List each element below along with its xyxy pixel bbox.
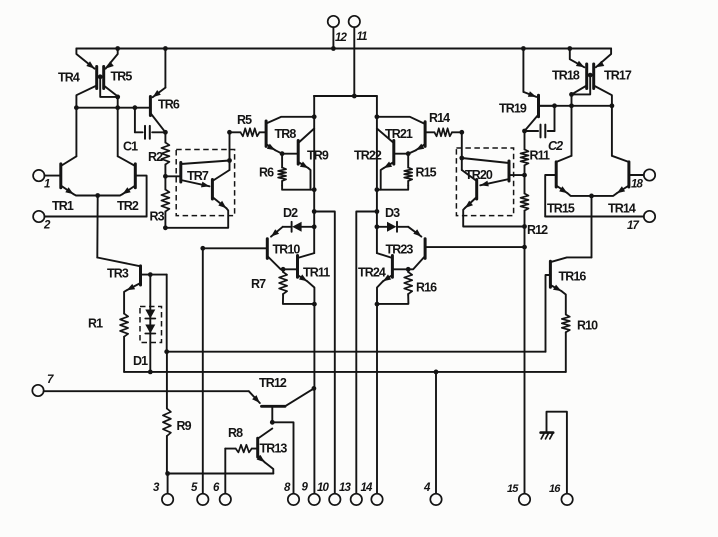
transistor TR11 <box>283 253 330 304</box>
node junction <box>148 272 153 277</box>
svg-text:R11: R11 <box>530 149 550 163</box>
svg-text:TR7: TR7 <box>187 169 209 183</box>
svg-text:C1: C1 <box>123 140 138 154</box>
pin 13 <box>339 482 362 505</box>
resistor R2 <box>148 132 169 176</box>
diode D2 <box>283 206 315 232</box>
wire <box>229 132 231 170</box>
pin 10 wire <box>314 212 335 494</box>
node junction <box>375 302 380 307</box>
svg-text:R7: R7 <box>251 277 266 291</box>
svg-text:R10: R10 <box>577 319 598 333</box>
transistor TR14 <box>592 156 644 216</box>
wire <box>97 74 104 79</box>
node junction <box>227 130 232 135</box>
node junction <box>521 46 526 51</box>
svg-text:TR20: TR20 <box>465 168 493 182</box>
node junction <box>406 267 411 272</box>
svg-text:TR11: TR11 <box>303 266 330 280</box>
transistor TR22 <box>354 129 408 190</box>
capacitor C1 <box>123 105 165 153</box>
pin 15 <box>507 483 530 505</box>
resistor R16 <box>377 269 437 304</box>
wire <box>124 371 566 373</box>
diode D1 <box>133 275 155 372</box>
wire <box>76 86 96 108</box>
resistor R10 <box>562 315 598 372</box>
node junction <box>165 471 170 476</box>
node junction <box>522 129 527 134</box>
wire <box>166 275 168 352</box>
transistor TR9 <box>282 129 329 190</box>
svg-text:15: 15 <box>507 483 519 495</box>
node junction <box>163 174 168 179</box>
wire <box>104 86 120 100</box>
wire <box>569 86 587 97</box>
wire <box>76 107 150 109</box>
node junction <box>280 151 285 156</box>
pin 14 <box>361 482 383 505</box>
node junction <box>148 370 153 375</box>
svg-text:TR5: TR5 <box>111 70 133 84</box>
node junction <box>95 193 100 198</box>
transistor TR3 <box>97 258 166 314</box>
node junction <box>163 46 168 51</box>
transistor TR4 <box>58 49 97 89</box>
svg-text:1: 1 <box>44 179 50 191</box>
wire <box>313 96 315 253</box>
node junction <box>163 225 168 230</box>
svg-text:TR1: TR1 <box>52 199 74 213</box>
ground <box>541 433 554 439</box>
dashed box TR7 <box>176 150 234 216</box>
node junction <box>459 156 464 161</box>
node junction <box>312 209 317 214</box>
node junction <box>567 46 572 51</box>
svg-text:TR10: TR10 <box>273 243 301 257</box>
pin 14 wire <box>376 304 378 494</box>
pin 1 <box>33 170 59 191</box>
wire <box>572 75 591 94</box>
transistor TR6 <box>150 49 179 133</box>
transistor TR18 <box>552 49 587 89</box>
svg-text:TR18: TR18 <box>552 69 580 83</box>
pin 7 <box>32 374 249 396</box>
resistor R14 <box>425 111 462 136</box>
transistor TR13 <box>257 429 288 474</box>
svg-text:12: 12 <box>335 32 347 44</box>
node junction <box>459 130 464 135</box>
svg-text:TR15: TR15 <box>547 202 575 216</box>
wire <box>594 86 612 106</box>
capacitor C2 <box>525 106 564 153</box>
resistor R11 <box>521 131 550 175</box>
svg-text:TR12: TR12 <box>259 376 287 390</box>
svg-text:11: 11 <box>357 31 368 43</box>
transistor TR24 <box>358 253 408 304</box>
svg-text:R15: R15 <box>416 166 437 180</box>
node junction <box>227 158 232 163</box>
pin 18 <box>631 169 655 190</box>
resistor R1 <box>88 314 128 372</box>
wire <box>115 97 120 156</box>
pin 11 <box>349 16 368 96</box>
resistor R3 <box>150 176 170 228</box>
svg-text:TR24: TR24 <box>358 266 386 280</box>
pin 17 <box>545 211 655 232</box>
transistor TR20b <box>462 168 525 227</box>
pin 4 <box>423 372 442 505</box>
node junction <box>163 130 168 135</box>
svg-text:R8: R8 <box>228 426 243 440</box>
resistor R15 <box>377 154 437 190</box>
node junction <box>434 370 439 375</box>
pin 6 <box>213 449 231 505</box>
wire <box>314 95 377 97</box>
wire <box>376 96 378 253</box>
node junction <box>375 209 380 214</box>
node junction <box>312 114 317 119</box>
node junction <box>312 302 317 307</box>
transistor TR7b <box>167 169 230 228</box>
svg-text:TR13: TR13 <box>260 442 288 456</box>
wire <box>591 196 593 258</box>
transistor TR17 <box>594 49 632 89</box>
dashed box TR20 <box>456 148 513 216</box>
wire <box>75 108 77 157</box>
svg-text:R6: R6 <box>259 166 274 180</box>
node junction <box>552 103 557 108</box>
node junction <box>312 386 317 391</box>
wire <box>461 132 463 170</box>
svg-text:D2: D2 <box>283 206 298 220</box>
svg-text:R3: R3 <box>150 210 165 224</box>
wire <box>587 73 594 78</box>
node junction <box>610 103 615 108</box>
transistor TR12 <box>249 376 314 422</box>
diode D3 <box>377 206 408 232</box>
transistor TR20a <box>462 158 525 186</box>
wire <box>96 196 98 258</box>
node junction <box>312 187 317 192</box>
svg-text:13: 13 <box>339 482 351 494</box>
node junction <box>522 224 527 229</box>
pin 3 <box>153 474 173 506</box>
resistor R6 <box>259 154 314 190</box>
dashed box D1 <box>140 307 162 343</box>
node junction <box>375 224 380 229</box>
transistor TR23 <box>386 227 525 269</box>
wire <box>611 106 613 156</box>
node junction <box>352 94 357 99</box>
pin 9 wire <box>313 304 315 494</box>
svg-text:TR3: TR3 <box>107 267 129 281</box>
svg-text:TR2: TR2 <box>117 199 139 213</box>
pin 2 <box>33 211 147 232</box>
transistor TR7a <box>165 161 229 188</box>
transistor TR5 <box>104 49 133 89</box>
transistor TR19 <box>499 49 555 132</box>
wire <box>168 473 274 475</box>
svg-text:C2: C2 <box>548 139 563 153</box>
resistor R5 <box>230 113 266 136</box>
svg-text:16: 16 <box>549 483 561 495</box>
node junction <box>115 46 120 51</box>
node junction <box>589 194 594 199</box>
transistor TR8 <box>266 117 314 154</box>
node junction <box>200 246 205 251</box>
node junction <box>312 224 317 229</box>
transistor TR1 <box>52 156 98 213</box>
svg-text:D3: D3 <box>385 206 400 220</box>
svg-text:TR6: TR6 <box>158 98 180 112</box>
svg-text:TR8: TR8 <box>275 127 297 141</box>
wire <box>167 351 546 353</box>
transistor TR15 <box>545 156 591 217</box>
svg-text:TR17: TR17 <box>604 69 632 83</box>
svg-text:17: 17 <box>627 220 639 232</box>
node junction <box>164 349 169 354</box>
svg-text:10: 10 <box>317 482 329 494</box>
svg-text:TR19: TR19 <box>499 102 527 116</box>
pin 9 <box>302 482 320 506</box>
transistor TR16 <box>546 257 592 351</box>
pin 8 <box>284 482 299 505</box>
svg-text:TR4: TR4 <box>58 71 80 85</box>
svg-text:R1: R1 <box>88 317 103 331</box>
transistor TR21 <box>377 117 425 154</box>
svg-text:TR23: TR23 <box>386 243 414 257</box>
wire <box>76 48 611 50</box>
transistor TR10 <box>203 227 301 269</box>
pin 16 wire <box>547 412 567 494</box>
resistor R7 <box>251 269 314 304</box>
pin 16 <box>549 483 573 505</box>
svg-text:R16: R16 <box>416 281 437 295</box>
svg-text:R12: R12 <box>527 223 548 237</box>
svg-text:TR9: TR9 <box>307 149 329 163</box>
svg-text:14: 14 <box>361 482 373 494</box>
pin 8 wire <box>272 422 293 493</box>
svg-text:TR16: TR16 <box>559 270 587 284</box>
svg-text:R2: R2 <box>148 150 163 164</box>
node junction <box>281 267 286 272</box>
node junction <box>74 105 79 110</box>
pin 15 wire <box>522 227 527 494</box>
svg-text:D1: D1 <box>133 354 148 368</box>
pin 13 wire <box>356 212 377 494</box>
resistor R9 <box>163 352 192 474</box>
node junction <box>406 151 411 156</box>
svg-text:TR22: TR22 <box>354 149 382 163</box>
pin 10 <box>317 482 340 505</box>
node junction <box>375 187 380 192</box>
node junction <box>331 46 336 51</box>
pin 5 <box>191 248 209 505</box>
node junction <box>522 173 527 178</box>
svg-text:R14: R14 <box>429 111 450 125</box>
svg-text:TR14: TR14 <box>608 202 636 216</box>
wire <box>100 77 118 97</box>
transistor TR2 <box>98 156 147 216</box>
svg-text:R5: R5 <box>237 113 252 127</box>
pin 12 <box>328 16 348 49</box>
resistor R12 <box>521 175 549 237</box>
wire <box>569 94 574 155</box>
resistor R8 <box>225 426 257 452</box>
svg-text:18: 18 <box>631 179 643 191</box>
wire <box>540 105 612 107</box>
svg-text:R9: R9 <box>177 419 192 433</box>
node junction <box>375 114 380 119</box>
node junction <box>270 420 275 425</box>
